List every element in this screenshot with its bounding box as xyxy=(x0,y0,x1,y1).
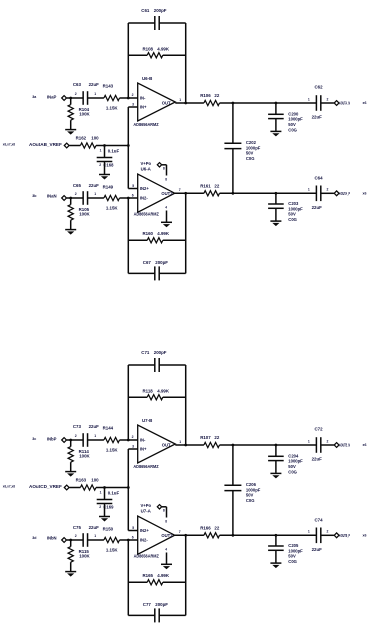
svg-text:3d: 3d xyxy=(32,536,36,540)
svg-text:AOUTB_N: AOUTB_N xyxy=(339,443,350,448)
wire op-amp1 IN+ down to VREF node xyxy=(128,448,137,450)
svg-text:C205: C205 xyxy=(288,543,299,548)
svg-text:U7-A: U7-A xyxy=(141,508,152,513)
resistor R118 4.99K (feedback) xyxy=(128,396,147,398)
wire feedback2 left vertical xyxy=(127,540,129,615)
wire cap to resistor xyxy=(88,197,104,199)
svg-text:R118: R118 xyxy=(143,389,154,394)
wire op-amp2 output xyxy=(175,534,204,536)
svg-text:R163: R163 xyxy=(76,477,87,482)
svg-text:C62: C62 xyxy=(315,85,324,90)
svg-text:2: 2 xyxy=(75,434,77,438)
svg-text:22uF: 22uF xyxy=(312,205,323,210)
capacitor C206 1000pF 50V C0G (across outputs) xyxy=(232,445,234,485)
svg-text:AOutCD_VREF: AOutCD_VREF xyxy=(29,484,62,489)
svg-text:R166: R166 xyxy=(200,525,211,530)
op-amp U7-B (top half, AD8656ARMZ) xyxy=(138,425,176,463)
node VREF to IN+ junction xyxy=(127,486,130,489)
wire input P to cap xyxy=(67,97,83,99)
svg-text:IN-: IN- xyxy=(140,96,146,101)
wire feedback-loop top left segment xyxy=(128,364,154,366)
svg-text:C65: C65 xyxy=(73,183,82,188)
svg-text:R143: R143 xyxy=(103,84,114,89)
svg-text:C73: C73 xyxy=(73,424,82,429)
wire op-amp1 IN+ down to VREF node xyxy=(128,106,137,108)
svg-text:INbP: INbP xyxy=(47,437,57,442)
svg-text:1: 1 xyxy=(308,188,310,192)
node output2 / shunt cap junction xyxy=(275,192,278,195)
svg-text:C64: C64 xyxy=(315,175,324,180)
svg-text:22uF: 22uF xyxy=(312,457,323,462)
node output1 feedback junction xyxy=(184,102,187,105)
node input N junction xyxy=(69,197,72,200)
svg-text:AD8656ARMZ: AD8656ARMZ xyxy=(134,211,160,216)
node VREF to IN+ junction xyxy=(127,144,130,147)
capacitor C63 22uF (input AC coupling) xyxy=(82,91,84,105)
op-amp U6-B (top half, AD8656ARMZ) xyxy=(138,83,176,121)
svg-text:4: 4 xyxy=(165,547,167,551)
capacitor C77 200pF (feedback 2) xyxy=(128,614,154,616)
svg-text:2: 2 xyxy=(327,530,329,534)
wire feedback-loop right vertical xyxy=(185,23,187,103)
ground (input P termination) xyxy=(65,129,76,131)
svg-text:1: 1 xyxy=(94,192,96,196)
svg-text:50V: 50V xyxy=(288,122,296,127)
wire VREF resistor to node xyxy=(96,487,128,489)
wire feedback-loop top right segment xyxy=(159,22,185,24)
svg-text:5: 5 xyxy=(132,184,134,188)
wire input N to cap xyxy=(67,197,83,199)
svg-text:C206: C206 xyxy=(246,482,257,487)
svg-text:R108: R108 xyxy=(143,47,154,52)
port AOUTB_N (pin x6) xyxy=(321,444,334,446)
wire feedback-loop right vertical xyxy=(185,365,187,445)
wire resistor to op-amp IN2- xyxy=(120,197,138,199)
svg-text:2: 2 xyxy=(75,192,77,196)
svg-text:R150: R150 xyxy=(103,526,114,531)
svg-text:C67: C67 xyxy=(143,260,152,265)
svg-text:4.99K: 4.99K xyxy=(157,231,170,236)
svg-text:22uF: 22uF xyxy=(89,183,100,188)
svg-text:4: 4 xyxy=(165,205,167,209)
wire VREF resistor to node xyxy=(96,145,128,147)
svg-text:7: 7 xyxy=(179,530,181,534)
svg-text:INbN: INbN xyxy=(47,536,57,541)
node output1 / shunt cap junction xyxy=(275,102,278,105)
svg-text:22uF: 22uF xyxy=(312,115,323,120)
wire VREF node down to op-amp2 IN+ xyxy=(127,488,129,531)
resistor R149 1.15K (input) xyxy=(104,195,120,200)
svg-text:x6,x7,x8: x6,x7,x8 xyxy=(3,485,15,489)
svg-text:50V: 50V xyxy=(246,493,254,498)
svg-text:C77: C77 xyxy=(143,602,152,607)
capacitor C202 1000pF 50V C0G (across outputs) xyxy=(232,103,234,143)
svg-text:OUT2: OUT2 xyxy=(161,191,173,196)
capacitor C169 0.1uF (VREF bypass) xyxy=(104,488,106,500)
wire op-amp1 output xyxy=(175,102,204,104)
node output1 / shunt cap junction xyxy=(275,444,278,447)
node output1 / interstage cap junction xyxy=(232,102,235,105)
svg-text:x6: x6 xyxy=(363,191,367,195)
wire cap to resistor xyxy=(88,439,104,441)
svg-text:C75: C75 xyxy=(73,525,82,530)
svg-text:100K: 100K xyxy=(79,454,90,459)
svg-text:C0G: C0G xyxy=(288,127,297,132)
resistor R160 4.99K (feedback 2) xyxy=(128,239,147,241)
wire feedback-loop top right segment xyxy=(159,364,185,366)
wire feedback2 right vertical xyxy=(185,535,187,615)
node output1 / interstage cap junction xyxy=(232,444,235,447)
ground (input P termination) xyxy=(65,471,76,473)
svg-text:C0G: C0G xyxy=(288,559,297,564)
svg-text:x6: x6 xyxy=(363,533,367,537)
svg-text:U6-B: U6-B xyxy=(142,76,152,81)
capacitor C67 200pF (feedback 2) xyxy=(128,272,154,274)
node output1 feedback junction xyxy=(184,444,187,447)
svg-text:22uF: 22uF xyxy=(89,82,100,87)
capacitor C65 22uF (input AC coupling) xyxy=(82,191,84,205)
resistor R104 100K (input P termination) xyxy=(70,98,72,105)
svg-text:1: 1 xyxy=(94,92,96,96)
svg-text:22: 22 xyxy=(214,435,219,440)
svg-text:2: 2 xyxy=(327,188,329,192)
wire feedback-loop top left segment xyxy=(128,22,154,24)
svg-text:0.1uF: 0.1uF xyxy=(108,149,120,154)
ground (output2 shunt cap) xyxy=(270,562,281,564)
svg-text:3: 3 xyxy=(132,444,134,448)
svg-text:22: 22 xyxy=(214,183,219,188)
svg-text:5: 5 xyxy=(132,526,134,530)
capacitor C75 22uF (input AC coupling) xyxy=(82,533,84,547)
svg-text:100K: 100K xyxy=(79,212,90,217)
svg-text:2: 2 xyxy=(327,97,329,101)
port AOUTA_P (pin x6) xyxy=(321,192,334,194)
ground (output1 shunt cap) xyxy=(270,472,281,474)
svg-text:1.15K: 1.15K xyxy=(106,206,119,211)
svg-text:C200: C200 xyxy=(288,111,299,116)
svg-text:8: 8 xyxy=(165,177,167,181)
capacitor C203 1000pF 50V C0G (output shunt) xyxy=(275,193,277,204)
node output2 / interstage cap junction xyxy=(232,192,235,195)
wire output2 to junctions xyxy=(220,192,317,194)
svg-text:C74: C74 xyxy=(315,517,324,522)
svg-text:100K: 100K xyxy=(79,112,90,117)
svg-text:C202: C202 xyxy=(246,140,257,145)
svg-text:C0G: C0G xyxy=(288,217,297,222)
svg-text:200pF: 200pF xyxy=(155,602,168,607)
svg-text:1: 1 xyxy=(100,491,102,495)
wire output1 to junctions xyxy=(220,102,317,104)
op-amp U6-A (bottom half, AD8656ARMZ) xyxy=(138,174,175,212)
svg-text:AD8656ARMZ: AD8656ARMZ xyxy=(133,464,159,469)
node input P junction xyxy=(69,97,72,100)
svg-text:x6: x6 xyxy=(363,101,367,105)
wire resistor to op-amp IN- xyxy=(120,97,138,99)
svg-text:C203: C203 xyxy=(288,201,299,206)
svg-text:8: 8 xyxy=(163,167,165,171)
svg-text:C71: C71 xyxy=(141,350,150,355)
resistor R143 1.15K (input) xyxy=(104,95,120,100)
svg-text:U6-A: U6-A xyxy=(141,166,152,171)
svg-text:R165: R165 xyxy=(143,573,154,578)
svg-text:C0G: C0G xyxy=(246,498,255,503)
svg-text:AD8656ARMZ: AD8656ARMZ xyxy=(133,122,159,127)
svg-text:AOUTA_N: AOUTA_N xyxy=(339,101,350,106)
svg-text:IN2+: IN2+ xyxy=(140,186,150,191)
svg-text:1000pF: 1000pF xyxy=(246,145,261,150)
node output2 / shunt cap junction xyxy=(275,534,278,537)
svg-text:1: 1 xyxy=(179,440,181,444)
svg-text:AOUTB_P: AOUTB_P xyxy=(339,533,350,538)
svg-text:1: 1 xyxy=(94,534,96,538)
ground (input N termination) xyxy=(65,571,76,573)
svg-text:1: 1 xyxy=(94,434,96,438)
svg-text:C204: C204 xyxy=(288,453,299,458)
svg-text:1.15K: 1.15K xyxy=(106,448,119,453)
svg-text:50V: 50V xyxy=(246,151,254,156)
wire op-amp2 output xyxy=(175,192,204,194)
port AOUTA_N (pin x6) xyxy=(321,102,334,104)
svg-text:22uF: 22uF xyxy=(89,424,100,429)
resistor R144 1.15K (input) xyxy=(104,437,120,442)
capacitor C200 1000pF 50V C0G (output shunt) xyxy=(275,103,277,114)
resistor R150 1.15K (input) xyxy=(104,537,120,542)
port AOUTB_P (pin x6) xyxy=(321,534,334,536)
svg-text:AOutAB_VREF: AOutAB_VREF xyxy=(29,142,62,147)
svg-text:2: 2 xyxy=(99,163,101,167)
node output2 / interstage cap junction xyxy=(232,534,235,537)
svg-text:1000pF: 1000pF xyxy=(288,206,303,211)
svg-text:R106: R106 xyxy=(200,93,211,98)
wire VREF node down to op-amp2 IN+ xyxy=(127,146,129,189)
svg-text:R161: R161 xyxy=(200,183,211,188)
resistor R115 100K (input N termination) xyxy=(70,540,72,547)
svg-text:3c: 3c xyxy=(32,437,36,441)
svg-text:50V: 50V xyxy=(288,554,296,559)
svg-text:1.15K: 1.15K xyxy=(106,548,119,553)
node VREF bypass junction xyxy=(103,144,106,147)
svg-text:0.1uF: 0.1uF xyxy=(108,491,120,496)
svg-text:OUT2: OUT2 xyxy=(161,533,173,538)
capacitor C71 200pF (top feedback) xyxy=(154,358,156,372)
svg-text:1000pF: 1000pF xyxy=(288,548,303,553)
wire output2 to junctions xyxy=(220,534,317,536)
svg-text:INaN: INaN xyxy=(47,194,57,199)
node output2 feedback junction xyxy=(184,192,187,195)
svg-text:x6: x6 xyxy=(363,443,367,447)
svg-text:x6,x7,x8: x6,x7,x8 xyxy=(3,143,15,147)
svg-text:INaP: INaP xyxy=(47,95,57,100)
svg-text:2: 2 xyxy=(99,505,101,509)
node IN2- summing junction xyxy=(127,197,130,200)
power flag V+ (op-amp supply) xyxy=(157,505,161,509)
svg-text:6: 6 xyxy=(132,535,134,539)
resistor R107 22 (output series) xyxy=(204,442,220,447)
svg-text:IN+: IN+ xyxy=(140,105,147,110)
wire resistor to op-amp IN2- xyxy=(120,539,138,541)
svg-text:U7-B: U7-B xyxy=(142,418,152,423)
svg-text:4.99K: 4.99K xyxy=(157,47,170,52)
node output2 feedback junction xyxy=(184,534,187,537)
svg-text:1000pF: 1000pF xyxy=(246,487,261,492)
svg-text:C0G: C0G xyxy=(246,156,255,161)
svg-text:22uF: 22uF xyxy=(89,525,100,530)
capacitor C168 0.1uF (VREF bypass) xyxy=(104,146,106,158)
node input P junction xyxy=(69,439,72,442)
svg-text:1: 1 xyxy=(308,530,310,534)
wire resistor to op-amp IN- xyxy=(120,439,138,441)
power flag V+ (op-amp supply) xyxy=(157,163,161,167)
svg-text:1: 1 xyxy=(179,98,181,102)
node VREF bypass junction xyxy=(103,486,106,489)
svg-text:3: 3 xyxy=(132,102,134,106)
svg-text:22: 22 xyxy=(214,525,219,530)
svg-text:C72: C72 xyxy=(315,427,324,432)
resistor R114 100K (input P termination) xyxy=(70,440,72,447)
wire cap to resistor xyxy=(88,539,104,541)
svg-text:22: 22 xyxy=(214,93,219,98)
svg-text:R144: R144 xyxy=(103,426,114,431)
svg-text:R149: R149 xyxy=(103,184,114,189)
svg-text:AD8656ARMZ: AD8656ARMZ xyxy=(134,553,160,558)
svg-text:1.15K: 1.15K xyxy=(106,106,119,111)
svg-text:6: 6 xyxy=(132,193,134,197)
svg-text:IN-: IN- xyxy=(140,438,146,443)
wire op-amp1 output xyxy=(175,444,204,446)
ground (output2 shunt cap) xyxy=(270,220,281,222)
resistor R106 22 (output series) xyxy=(204,100,220,105)
svg-text:100: 100 xyxy=(91,135,99,140)
wire feedback-loop left vertical xyxy=(127,23,129,98)
svg-text:OUT: OUT xyxy=(162,101,171,106)
svg-text:IN2-: IN2- xyxy=(140,538,149,543)
node input N junction xyxy=(69,539,72,542)
svg-text:200pF: 200pF xyxy=(154,8,167,13)
capacitor C61 200pF (top feedback) xyxy=(154,16,156,30)
svg-text:8: 8 xyxy=(163,509,165,513)
wire feedback2 right vertical xyxy=(185,193,187,273)
resistor R108 4.99K (feedback) xyxy=(128,54,147,56)
svg-text:100: 100 xyxy=(91,477,99,482)
svg-text:22uF: 22uF xyxy=(312,547,323,552)
wire feedback2 left vertical xyxy=(127,198,129,273)
svg-text:100K: 100K xyxy=(79,554,90,559)
wire output1 to junctions xyxy=(220,444,317,446)
svg-text:1: 1 xyxy=(308,97,310,101)
svg-text:1: 1 xyxy=(308,439,310,443)
svg-text:IN+: IN+ xyxy=(140,447,147,452)
svg-text:1000pF: 1000pF xyxy=(288,459,303,464)
svg-text:200pF: 200pF xyxy=(154,350,167,355)
svg-text:50V: 50V xyxy=(288,212,296,217)
svg-text:2: 2 xyxy=(75,534,77,538)
ground (VREF bypass) xyxy=(99,174,110,176)
svg-text:R162: R162 xyxy=(76,135,87,140)
svg-text:2: 2 xyxy=(132,93,134,97)
svg-text:4.99K: 4.99K xyxy=(157,389,170,394)
svg-text:C63: C63 xyxy=(73,82,82,87)
resistor R162 100 (VREF series) xyxy=(69,145,80,147)
svg-text:2: 2 xyxy=(75,92,77,96)
ground (output1 shunt cap) xyxy=(270,130,281,132)
ground (input N termination) xyxy=(65,229,76,231)
ground (VREF bypass) xyxy=(99,516,110,518)
capacitor C204 1000pF 50V C0G (output shunt) xyxy=(275,445,277,456)
svg-text:4.99K: 4.99K xyxy=(157,573,170,578)
capacitor C73 22uF (input AC coupling) xyxy=(82,433,84,447)
resistor R163 100 (VREF series) xyxy=(69,487,80,489)
op-amp U7-A (bottom half, AD8656ARMZ) xyxy=(138,516,175,554)
node IN2- summing junction xyxy=(127,539,130,542)
svg-text:AOUTA_P: AOUTA_P xyxy=(339,191,350,196)
svg-text:1: 1 xyxy=(100,149,102,153)
svg-text:R160: R160 xyxy=(143,231,154,236)
svg-text:C61: C61 xyxy=(141,8,150,13)
svg-text:IN2+: IN2+ xyxy=(140,528,150,533)
svg-text:8: 8 xyxy=(165,519,167,523)
node IN- summing junction xyxy=(127,97,130,100)
svg-text:1000pF: 1000pF xyxy=(288,117,303,122)
wire input N to cap xyxy=(67,539,83,541)
svg-text:200pF: 200pF xyxy=(155,260,168,265)
svg-text:50V: 50V xyxy=(288,464,296,469)
wire feedback-loop left vertical xyxy=(127,365,129,440)
capacitor C205 1000pF 50V C0G (output shunt) xyxy=(275,535,277,546)
wire cap to resistor xyxy=(88,97,104,99)
resistor R166 22 (output series) xyxy=(204,533,220,538)
wire input P to cap xyxy=(67,439,83,441)
resistor R165 4.99K (feedback 2) xyxy=(128,581,147,583)
svg-text:2: 2 xyxy=(327,439,329,443)
svg-text:R107: R107 xyxy=(200,435,211,440)
svg-text:C0G: C0G xyxy=(288,469,297,474)
svg-text:OUT: OUT xyxy=(162,443,171,448)
svg-text:2: 2 xyxy=(132,435,134,439)
resistor R105 100K (input N termination) xyxy=(70,198,72,205)
svg-text:7: 7 xyxy=(179,188,181,192)
resistor R161 22 (output series) xyxy=(204,191,220,196)
node IN- summing junction xyxy=(127,439,130,442)
svg-text:IN2-: IN2- xyxy=(140,196,149,201)
